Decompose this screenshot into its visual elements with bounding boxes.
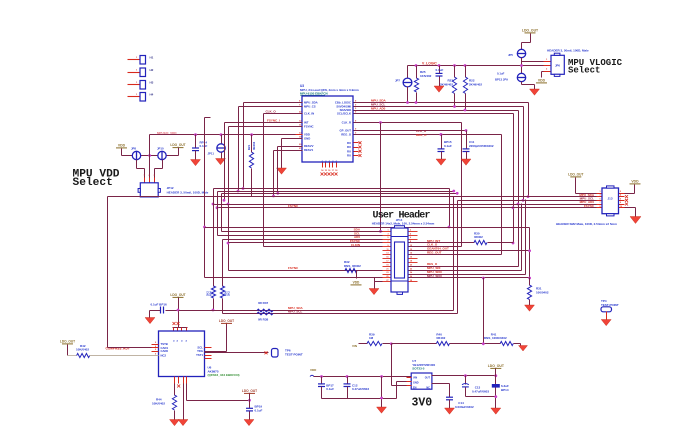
mounting hole H1 bbox=[128, 59, 141, 61]
svg-text:JP6: JP6 bbox=[555, 64, 560, 68]
ground (BP13) bbox=[434, 86, 444, 92]
wire CLKIN top bus bbox=[354, 113, 514, 115]
svg-text:LDO_OUT: LDO_OUT bbox=[60, 340, 75, 344]
svg-text:VDD: VDD bbox=[118, 144, 126, 148]
svg-text:3: 3 bbox=[387, 233, 388, 235]
ground (U3 gnd pin) bbox=[282, 138, 303, 140]
svg-text:1: 1 bbox=[136, 82, 138, 84]
wire J13 ad0 long bbox=[214, 204, 597, 206]
U6 bottom pins bbox=[174, 377, 176, 384]
capacitor BP19 bbox=[246, 407, 253, 409]
svg-text:0.1uF: 0.1uF bbox=[436, 68, 444, 72]
capacitor BP17 bbox=[321, 377, 323, 384]
svg-text:13: 13 bbox=[386, 253, 388, 255]
svg-text:V_LOGIC: V_LOGIC bbox=[422, 62, 437, 66]
svg-text:CLK_IN: CLK_IN bbox=[304, 112, 314, 116]
svg-text:HEADER SM2 Male, 100D, 2.54mm: HEADER SM2 Male, 100D, 2.54mm x2 5mm bbox=[556, 222, 617, 226]
svg-text:3: 3 bbox=[154, 175, 156, 177]
svg-text:4: 4 bbox=[410, 232, 412, 235]
svg-text:SCL/SCLK: SCL/SCLK bbox=[337, 112, 351, 116]
wire MPU_IO_VDD vertical bbox=[149, 135, 151, 178]
svg-text:VDD: VDD bbox=[353, 281, 360, 285]
jumper JP10 bbox=[158, 151, 166, 159]
wire AD0 row to left bbox=[223, 239, 383, 241]
svg-text:1: 1 bbox=[387, 229, 388, 231]
svg-text:24: 24 bbox=[410, 271, 413, 274]
svg-text:3: 3 bbox=[599, 195, 600, 197]
header JP14 body bbox=[391, 228, 408, 292]
mounting hole H4 bbox=[128, 96, 141, 98]
svg-text:2K49/402: 2K49/402 bbox=[469, 82, 482, 86]
svg-text:FSYNC: FSYNC bbox=[288, 266, 299, 270]
svg-text:LDO_OUT: LDO_OUT bbox=[488, 364, 505, 368]
ground (R41) bbox=[519, 346, 528, 352]
svg-text:19: 19 bbox=[386, 264, 388, 266]
wire SDA row to left bbox=[221, 194, 223, 232]
svg-text:RESV1: RESV1 bbox=[304, 148, 314, 152]
wire COMPASS_RDY bbox=[108, 347, 152, 349]
svg-text:2K49/402: 2K49/402 bbox=[440, 82, 453, 86]
capacitor BP16 bbox=[150, 310, 161, 312]
svg-text:1K5/402: 1K5/402 bbox=[420, 74, 432, 78]
wire row6 bbox=[409, 250, 530, 252]
svg-text:7: 7 bbox=[599, 202, 600, 204]
svg-text:H1: H1 bbox=[150, 56, 154, 60]
svg-text:CLK_R: CLK_R bbox=[342, 121, 351, 125]
svg-text:MPU_SDO: MPU_SDO bbox=[427, 274, 443, 278]
svg-text:G: G bbox=[329, 160, 331, 162]
wire GP_OUT bbox=[354, 130, 467, 132]
svg-text:MPU_SCL: MPU_SCL bbox=[288, 310, 303, 314]
IC U6 body bbox=[159, 331, 205, 377]
svg-text:0R R38: 0R R38 bbox=[258, 317, 269, 321]
resistor R37 bbox=[257, 309, 273, 312]
svg-text:G: G bbox=[177, 340, 179, 342]
wire LDO out rail bbox=[432, 375, 496, 377]
svg-text:8: 8 bbox=[620, 202, 621, 204]
svg-text:VDD: VDD bbox=[538, 79, 546, 83]
svg-text:0R402: 0R402 bbox=[474, 235, 483, 239]
svg-text:FSYNC: FSYNC bbox=[304, 125, 313, 129]
svg-text:VDD: VDD bbox=[631, 180, 639, 184]
resistor R42 bbox=[68, 355, 77, 357]
svg-text:CLKIN: CLKIN bbox=[351, 243, 360, 247]
svg-text:TST1: TST1 bbox=[196, 353, 203, 357]
svg-text:HEADER 14x2, Male, 100, 2.54mm: HEADER 14x2, Male, 100, 2.54mm x 2.54mm bbox=[372, 222, 435, 226]
svg-text:9: 9 bbox=[155, 342, 157, 344]
wire U6 pin4 to BP19 bbox=[186, 384, 188, 401]
wire MPU_AD0 top bus bbox=[354, 110, 519, 112]
svg-text:0.47uF/0603: 0.47uF/0603 bbox=[472, 389, 489, 393]
svg-text:BP13 JP9: BP13 JP9 bbox=[495, 78, 508, 82]
header JP14 pin stubs bbox=[383, 231, 392, 233]
wire MPU_CS (U3 to left bus) bbox=[239, 106, 303, 108]
ground (TP4) bbox=[601, 320, 611, 326]
svg-text:5: 5 bbox=[599, 198, 600, 200]
svg-text:LDO_OUT: LDO_OUT bbox=[568, 173, 583, 177]
svg-text:GND: GND bbox=[413, 381, 419, 384]
svg-text:1: 1 bbox=[136, 94, 138, 96]
svg-text:0.1uF: 0.1uF bbox=[255, 408, 263, 412]
wire J13 fsync long bbox=[218, 207, 597, 209]
svg-text:9: 9 bbox=[599, 206, 600, 208]
svg-text:0.1uF: 0.1uF bbox=[497, 72, 505, 76]
resistor R21 bbox=[250, 133, 253, 136]
svg-text:2: 2 bbox=[410, 229, 411, 231]
ground (3v0 input) bbox=[377, 407, 387, 413]
ground (C11) bbox=[461, 159, 471, 165]
wire LDO to U6 top pins bbox=[173, 327, 188, 329]
svg-text:JP10: JP10 bbox=[157, 147, 164, 151]
svg-text:VIN: VIN bbox=[413, 376, 417, 379]
wire SCL row to left bbox=[217, 192, 219, 236]
resistor R34 bbox=[211, 286, 215, 298]
wire bus3 bbox=[222, 193, 458, 195]
svg-text:LDO_OUT: LDO_OUT bbox=[242, 389, 257, 393]
svg-text:HEADER 3, 50mil, 100D, Male: HEADER 3, 50mil, 100D, Male bbox=[167, 191, 209, 195]
svg-text:G: G bbox=[182, 340, 184, 342]
svg-text:NC2: NC2 bbox=[161, 354, 167, 358]
wire CLK_O (U3 CLK_IN) bbox=[264, 113, 303, 115]
wire MPU_SCL top bus bbox=[354, 106, 524, 108]
svg-text:10: 10 bbox=[620, 206, 622, 208]
wire bus4 (compass_rdy) bbox=[108, 196, 465, 198]
svg-text:1: 1 bbox=[144, 175, 146, 177]
svg-text:5: 5 bbox=[387, 237, 388, 239]
svg-text:16: 16 bbox=[410, 257, 412, 259]
wire bus1 bbox=[214, 188, 450, 190]
junction MPU_IO_VDD select bbox=[148, 154, 151, 157]
svg-text:1: 1 bbox=[136, 57, 138, 59]
ground (U6 pin) bbox=[183, 384, 185, 420]
svg-text:9: 9 bbox=[387, 245, 388, 247]
ground (header) bbox=[375, 281, 383, 283]
svg-text:LDO_OUT: LDO_OUT bbox=[219, 319, 234, 323]
resistor R36 bbox=[220, 286, 224, 298]
wire JP5-JP9 bbox=[521, 58, 523, 74]
svg-text:JP11: JP11 bbox=[208, 152, 215, 156]
wire row RES_O bbox=[409, 266, 519, 268]
svg-text:OUT: OUT bbox=[425, 376, 431, 379]
svg-text:G: G bbox=[336, 160, 338, 162]
wire J13 scl long bbox=[458, 200, 597, 202]
test point TP6 bbox=[205, 352, 269, 354]
svg-text:EN: EN bbox=[413, 386, 417, 389]
junction R40/R41 bbox=[482, 342, 485, 345]
svg-text:2: 2 bbox=[149, 175, 151, 177]
svg-text:DNS_0R402: DNS_0R402 bbox=[344, 264, 361, 268]
svg-text:2K2: 2K2 bbox=[227, 291, 231, 296]
svg-text:0R402: 0R402 bbox=[436, 336, 445, 340]
wire row CLK_O right bbox=[409, 246, 462, 248]
wire REG_O bbox=[354, 134, 502, 136]
svg-text:27: 27 bbox=[386, 280, 388, 282]
connector J13 pin stubs bbox=[597, 193, 603, 195]
header JP12 pins bbox=[144, 178, 146, 183]
svg-text:6: 6 bbox=[410, 237, 411, 239]
ground (R31) bbox=[525, 305, 535, 311]
capacitor C12 bbox=[347, 377, 349, 384]
svg-text:11: 11 bbox=[387, 249, 389, 251]
svg-text:G: G bbox=[174, 340, 176, 342]
wire x483 vertical bbox=[482, 277, 485, 280]
svg-text:FSYNC: FSYNC bbox=[584, 204, 595, 208]
svg-text:GND: GND bbox=[304, 137, 310, 141]
capacitor C13 bbox=[465, 376, 467, 385]
capacitor BP14 bbox=[495, 376, 497, 385]
svg-text:TEST-POINT: TEST-POINT bbox=[285, 353, 303, 357]
ground (C14) bbox=[445, 408, 455, 414]
svg-text:7: 7 bbox=[387, 241, 388, 243]
wire FSYNC row11 left bbox=[229, 270, 383, 272]
svg-text:Select: Select bbox=[73, 177, 113, 189]
svg-text:G: G bbox=[325, 160, 327, 162]
svg-text:18: 18 bbox=[335, 170, 338, 172]
wire bus2 bbox=[218, 191, 454, 193]
svg-text:JP8: JP8 bbox=[131, 147, 136, 151]
wire y227 long bbox=[205, 227, 530, 229]
svg-text:Select: Select bbox=[568, 65, 600, 75]
svg-text:1M: 1M bbox=[369, 336, 374, 340]
svg-text:REG_O: REG_O bbox=[341, 133, 352, 137]
resistor R44 bbox=[174, 384, 176, 396]
svg-text:REG_O: REG_O bbox=[416, 133, 427, 137]
svg-text:LDO_OUT: LDO_OUT bbox=[170, 143, 185, 147]
wire FSYNC row to left bbox=[229, 242, 383, 244]
svg-text:2K2: 2K2 bbox=[206, 291, 210, 296]
junction R39 bbox=[390, 342, 393, 345]
svg-text:17: 17 bbox=[386, 261, 388, 263]
mounting hole H2 bbox=[128, 72, 141, 74]
ground (BP16) bbox=[145, 318, 155, 324]
resistor R25 bbox=[415, 64, 418, 67]
svg-text:2: 2 bbox=[620, 191, 621, 193]
svg-text:2: 2 bbox=[546, 69, 548, 71]
svg-text:JP7: JP7 bbox=[395, 79, 400, 83]
svg-text:21: 21 bbox=[386, 268, 388, 270]
svg-text:3V0: 3V0 bbox=[412, 397, 433, 410]
svg-text:18: 18 bbox=[410, 261, 412, 263]
svg-text:9: 9 bbox=[355, 108, 357, 110]
svg-text:1: 1 bbox=[136, 70, 138, 72]
wire CLKIN row to left bbox=[264, 246, 383, 248]
wire row7 REG_OUT bbox=[409, 254, 502, 256]
svg-text:0.47uF/0603: 0.47uF/0603 bbox=[352, 387, 369, 391]
svg-text:H2: H2 bbox=[150, 68, 154, 72]
wire out gnd bbox=[466, 396, 496, 398]
resistor R22 bbox=[464, 64, 467, 67]
svg-text:CAD0: CAD0 bbox=[161, 349, 169, 353]
wire J13 sda long bbox=[454, 196, 597, 198]
wire VIN rail bbox=[314, 376, 412, 378]
svg-text:0R R37: 0R R37 bbox=[258, 301, 269, 305]
svg-text:BP14: BP14 bbox=[501, 388, 509, 392]
ground (JP9) bbox=[521, 82, 523, 85]
svg-text:VIN: VIN bbox=[352, 344, 357, 348]
svg-text:10K/0402: 10K/0402 bbox=[152, 402, 165, 406]
power flag VDD (r32) bbox=[356, 271, 358, 279]
svg-text:MPU-9150 EBKFCN: MPU-9150 EBKFCN bbox=[300, 91, 328, 95]
wire CLK_R (U3 right) bbox=[354, 122, 462, 124]
resistor R41 bbox=[500, 341, 513, 345]
capacitor C14 bbox=[432, 383, 450, 385]
svg-text:0R402: 0R402 bbox=[252, 141, 256, 150]
ground (BP19) bbox=[244, 420, 254, 426]
jumper JP7 bbox=[403, 78, 412, 87]
jumper JP11 bbox=[220, 133, 223, 136]
ground (LDO out) bbox=[491, 408, 501, 414]
svg-text:HEADER 3, 50mil, 100D, Male: HEADER 3, 50mil, 100D, Male bbox=[547, 49, 589, 53]
svg-text:H4: H4 bbox=[150, 93, 154, 97]
wire MPU_SDA (U3 to left bus) bbox=[244, 102, 303, 104]
wire INT (U3) bbox=[225, 122, 303, 124]
svg-text:NC: NC bbox=[426, 386, 430, 389]
svg-text:10K/0402: 10K/0402 bbox=[76, 348, 89, 352]
wire bus1 left col R34 bbox=[213, 189, 215, 287]
jumper JP5 bbox=[517, 49, 525, 57]
resistor R39 bbox=[367, 341, 382, 345]
svg-text:1: 1 bbox=[546, 59, 548, 61]
wire FSYNC (U3) bbox=[229, 126, 303, 128]
wire U6 SCL to LDO bbox=[205, 351, 227, 353]
ground (JP11) bbox=[216, 159, 226, 165]
svg-text:0.1uF: 0.1uF bbox=[326, 387, 334, 391]
wire jp8 jp10 to jp12 bbox=[136, 160, 138, 169]
wire JP6 pin1 bbox=[522, 61, 544, 63]
svg-text:1: 1 bbox=[599, 191, 600, 193]
wire SDA bottom line bbox=[179, 310, 454, 312]
resistor R40 bbox=[392, 343, 437, 345]
svg-text:28: 28 bbox=[410, 280, 412, 282]
wire RESV pins bbox=[278, 146, 303, 148]
resistor R31 bbox=[529, 278, 531, 286]
IC U3 MPU body bbox=[302, 96, 353, 162]
wire row MPU_INT + resistor R30 bbox=[409, 242, 475, 244]
svg-text:100/0402: 100/0402 bbox=[536, 291, 549, 295]
capacitor C11 bbox=[466, 131, 468, 149]
wire JP6 pin2 bbox=[544, 65, 552, 67]
wire V_LOGIC rail bbox=[408, 65, 544, 67]
wire left col x204 bbox=[204, 118, 206, 278]
resistor R23 bbox=[453, 64, 456, 67]
svg-text:JP12: JP12 bbox=[167, 186, 174, 190]
ground (BP15) bbox=[436, 159, 446, 165]
svg-text:0.1uF: 0.1uF bbox=[200, 144, 208, 148]
svg-text:CLK_O: CLK_O bbox=[266, 110, 277, 114]
capacitor BP13 0.1uF bbox=[438, 64, 441, 67]
wire MPU_IO_VDD rail bbox=[150, 134, 303, 136]
svg-text:0.1uF: 0.1uF bbox=[444, 144, 452, 148]
svg-text:FSYNC_I: FSYNC_I bbox=[267, 119, 280, 123]
svg-text:H3: H3 bbox=[150, 81, 154, 85]
wire EN bbox=[391, 344, 393, 386]
wire MPU VDD select row bbox=[122, 155, 133, 157]
svg-text:J13: J13 bbox=[607, 197, 612, 201]
svg-text:SOT23-5: SOT23-5 bbox=[412, 367, 425, 371]
svg-text:R21: R21 bbox=[247, 144, 251, 150]
svg-text:G: G bbox=[186, 340, 188, 342]
capacitor BP15 bbox=[440, 133, 443, 136]
wire row13 long bbox=[205, 277, 383, 279]
svg-text:2200pF/X5R/0402: 2200pF/X5R/0402 bbox=[469, 144, 494, 148]
connector J13 body bbox=[602, 188, 619, 214]
svg-text:G: G bbox=[332, 160, 334, 162]
svg-text:DNS_100K/0402: DNS_100K/0402 bbox=[484, 336, 507, 340]
svg-text:6: 6 bbox=[620, 198, 621, 200]
svg-text:MPU_CS: MPU_CS bbox=[304, 105, 316, 109]
svg-text:0.033uF/0402: 0.033uF/0402 bbox=[455, 405, 474, 409]
resistor R38 bbox=[257, 312, 273, 315]
U3 bottom pins bbox=[322, 163, 324, 168]
header JP12 bbox=[140, 183, 158, 197]
svg-text:LDO_OUT: LDO_OUT bbox=[522, 29, 539, 33]
svg-text:15: 15 bbox=[386, 257, 388, 259]
mounting hole H3 bbox=[128, 84, 141, 86]
wire MPU_SDA top bus bbox=[354, 102, 529, 104]
svg-text:23: 23 bbox=[386, 272, 388, 274]
svg-text:VDD: VDD bbox=[310, 368, 317, 372]
svg-text:25: 25 bbox=[386, 276, 388, 278]
svg-text:9: 9 bbox=[155, 349, 157, 351]
svg-text:RU: RU bbox=[347, 154, 351, 158]
svg-text:G: G bbox=[322, 160, 324, 162]
capacitor RP14 0.1uF bbox=[194, 133, 197, 136]
wire SCL bottom line bbox=[223, 313, 458, 315]
ground (J13) bbox=[625, 207, 636, 209]
wire row MPU_SDO bbox=[409, 274, 526, 276]
ground (RP14) bbox=[191, 160, 201, 166]
jumper JP9 bbox=[517, 73, 525, 81]
J13 nc marks bbox=[625, 195, 628, 198]
wire row MPU_SDI + resistor R32 bbox=[409, 270, 522, 272]
jumper JP8 bbox=[132, 151, 140, 159]
ground (R44) bbox=[170, 420, 180, 426]
svg-text:0.1uF BP16: 0.1uF BP16 bbox=[151, 303, 168, 307]
wire 3v0 gnd rail bbox=[322, 398, 397, 400]
svg-text:(QFN16_4X4 EBKFCN): (QFN16_4X4 EBKFCN) bbox=[208, 373, 240, 377]
svg-text:LDO_OUT: LDO_OUT bbox=[170, 293, 185, 297]
svg-text:JP5: JP5 bbox=[508, 53, 513, 57]
svg-text:REG_OUT: REG_OUT bbox=[427, 250, 442, 254]
